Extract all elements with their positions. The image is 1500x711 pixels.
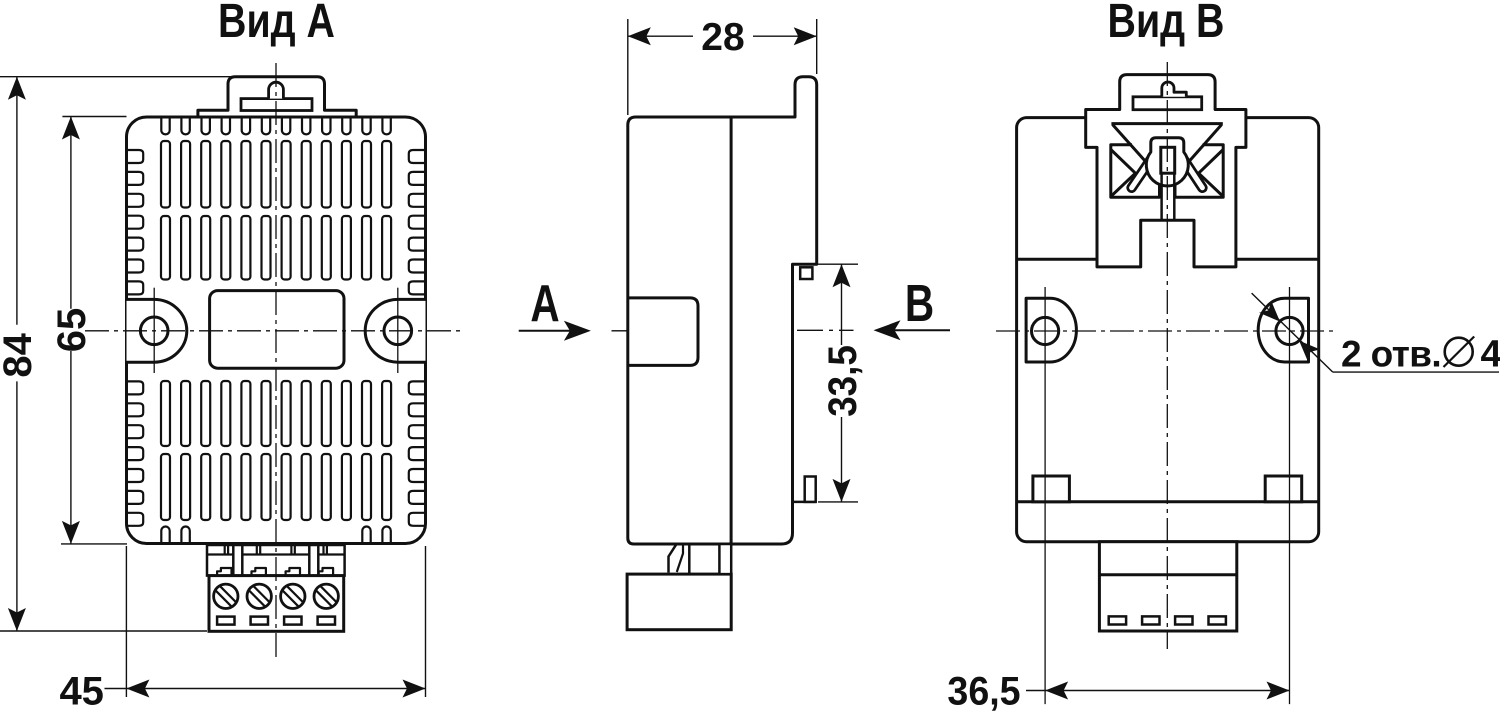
view A long vent slots row 1 (12 slots) xyxy=(161,141,170,208)
svg-text:Вид А: Вид А xyxy=(218,0,335,48)
view A DIN-clip tab (top) xyxy=(198,77,356,117)
dimension 33,5 line xyxy=(841,264,843,345)
dimension 28 extension lines xyxy=(627,19,629,115)
view A tab inner bar xyxy=(241,99,312,111)
view A left edge fins upper (7) xyxy=(127,150,143,163)
svg-text:65: 65 xyxy=(50,308,94,353)
svg-text:2 отв.: 2 отв. xyxy=(1341,334,1441,375)
dimension 28 line xyxy=(628,35,693,37)
view A body outline xyxy=(127,117,426,544)
svg-text:33,5: 33,5 xyxy=(821,345,866,417)
view B spring funnel diagonals xyxy=(1113,125,1159,176)
view B terminal block xyxy=(1099,542,1236,631)
side view plate mid centerline tick xyxy=(797,329,854,331)
view B shoulder line xyxy=(1017,258,1097,261)
view B spring right arm xyxy=(1182,157,1202,188)
dimension 45 line xyxy=(105,688,426,690)
view B spring latch blob xyxy=(1146,138,1188,186)
view A bottom vent short slots (4) xyxy=(161,527,169,543)
svg-text:36,5: 36,5 xyxy=(947,669,1020,711)
side view terminal latch tab xyxy=(669,545,677,573)
view B right ear hole xyxy=(1276,317,1303,344)
view A terminal upper horizontal line xyxy=(207,553,345,555)
view B hole extension lines xyxy=(1044,287,1046,704)
view B left ear xyxy=(1026,298,1076,362)
view B bottom shoulder line xyxy=(1017,500,1319,503)
view B spring right chevron xyxy=(1199,150,1224,197)
view B spring top line xyxy=(1111,122,1222,125)
svg-text:A: A xyxy=(530,274,559,332)
view B clip inner bar xyxy=(1133,97,1202,110)
dimension 65 line xyxy=(70,117,72,309)
side view body outline xyxy=(628,77,817,544)
view B terminal openings (4) xyxy=(1109,616,1126,624)
view A long vent slots row 4 (12 slots) xyxy=(161,454,170,520)
view B vertical centerline xyxy=(1166,62,1168,649)
side view rail hook top xyxy=(800,267,812,279)
side view mid centerline tick xyxy=(612,330,627,332)
view B spring left square xyxy=(1111,145,1160,198)
view B DIN clip outline xyxy=(1086,75,1246,267)
hole leader line xyxy=(1252,293,1333,372)
view A top vent slot row (12 short slots) xyxy=(161,118,169,135)
dimension 84 extension lines xyxy=(0,76,233,78)
view B spring left chevron xyxy=(1111,150,1136,197)
view A left mounting ear xyxy=(127,299,187,362)
view A right edge fins upper (7) xyxy=(409,150,425,163)
svg-text:45: 45 xyxy=(59,670,104,711)
view A left ear hole xyxy=(140,317,168,345)
svg-text:4: 4 xyxy=(1481,334,1500,376)
svg-text:Вид B: Вид B xyxy=(1108,0,1225,48)
view B spring central rect xyxy=(1161,147,1175,173)
side view rail hook bottom xyxy=(793,501,816,504)
view B spring slot xyxy=(1160,173,1163,220)
view A vertical centerline xyxy=(275,63,277,657)
dimension 84 line xyxy=(16,77,18,325)
view A terminal block xyxy=(209,576,344,632)
view A long vent slots row 3 (12 slots) xyxy=(161,381,170,446)
view A right mounting ear xyxy=(365,299,425,362)
svg-text:28: 28 xyxy=(701,16,744,59)
view A terminal upper bars xyxy=(233,545,242,576)
view A left edge fins lower (7) xyxy=(127,381,143,394)
view A tab finger xyxy=(269,82,284,98)
view A terminal upper ticks xyxy=(224,545,226,555)
svg-text:B: B xyxy=(905,274,934,332)
view A terminal upper bumps xyxy=(217,568,231,576)
side view terminal block xyxy=(627,574,731,630)
view A right edge fins lower (7) xyxy=(409,381,425,394)
side view divider line xyxy=(730,117,733,544)
view A terminal bottom openings (4) xyxy=(217,617,234,625)
view A horizontal centerline xyxy=(85,330,465,332)
dimension 45 extension lines xyxy=(125,546,127,697)
view B bottom tab left xyxy=(1033,476,1070,502)
view B spring right square xyxy=(1175,145,1223,198)
view A left hole crosshair xyxy=(153,288,155,373)
dimension 36,5 line xyxy=(1026,690,1290,692)
view B body outline xyxy=(1017,118,1319,542)
svg-text:84: 84 xyxy=(0,332,40,377)
view B terminal step line xyxy=(1099,573,1236,576)
side view left notch xyxy=(628,298,698,366)
view A label plate xyxy=(210,291,344,369)
view B spring left arm xyxy=(1132,157,1153,188)
view B right ear xyxy=(1258,298,1308,362)
view A long vent slots row 2 (12 slots) xyxy=(161,216,170,280)
view B bottom tab right xyxy=(1265,476,1302,502)
view A right ear hole xyxy=(384,317,412,345)
view B horizontal centerline xyxy=(996,330,1333,332)
side view terminal tab 2 xyxy=(719,544,731,574)
view A right hole crosshair xyxy=(397,288,399,373)
view A terminal upper section xyxy=(207,545,345,576)
dimension 33,5 extension lines xyxy=(818,263,858,265)
view B left ear hole xyxy=(1032,317,1059,344)
view B clip finger xyxy=(1162,82,1187,97)
dimension 65 extension lines xyxy=(62,116,126,118)
view A terminal screws (4) xyxy=(214,584,238,608)
